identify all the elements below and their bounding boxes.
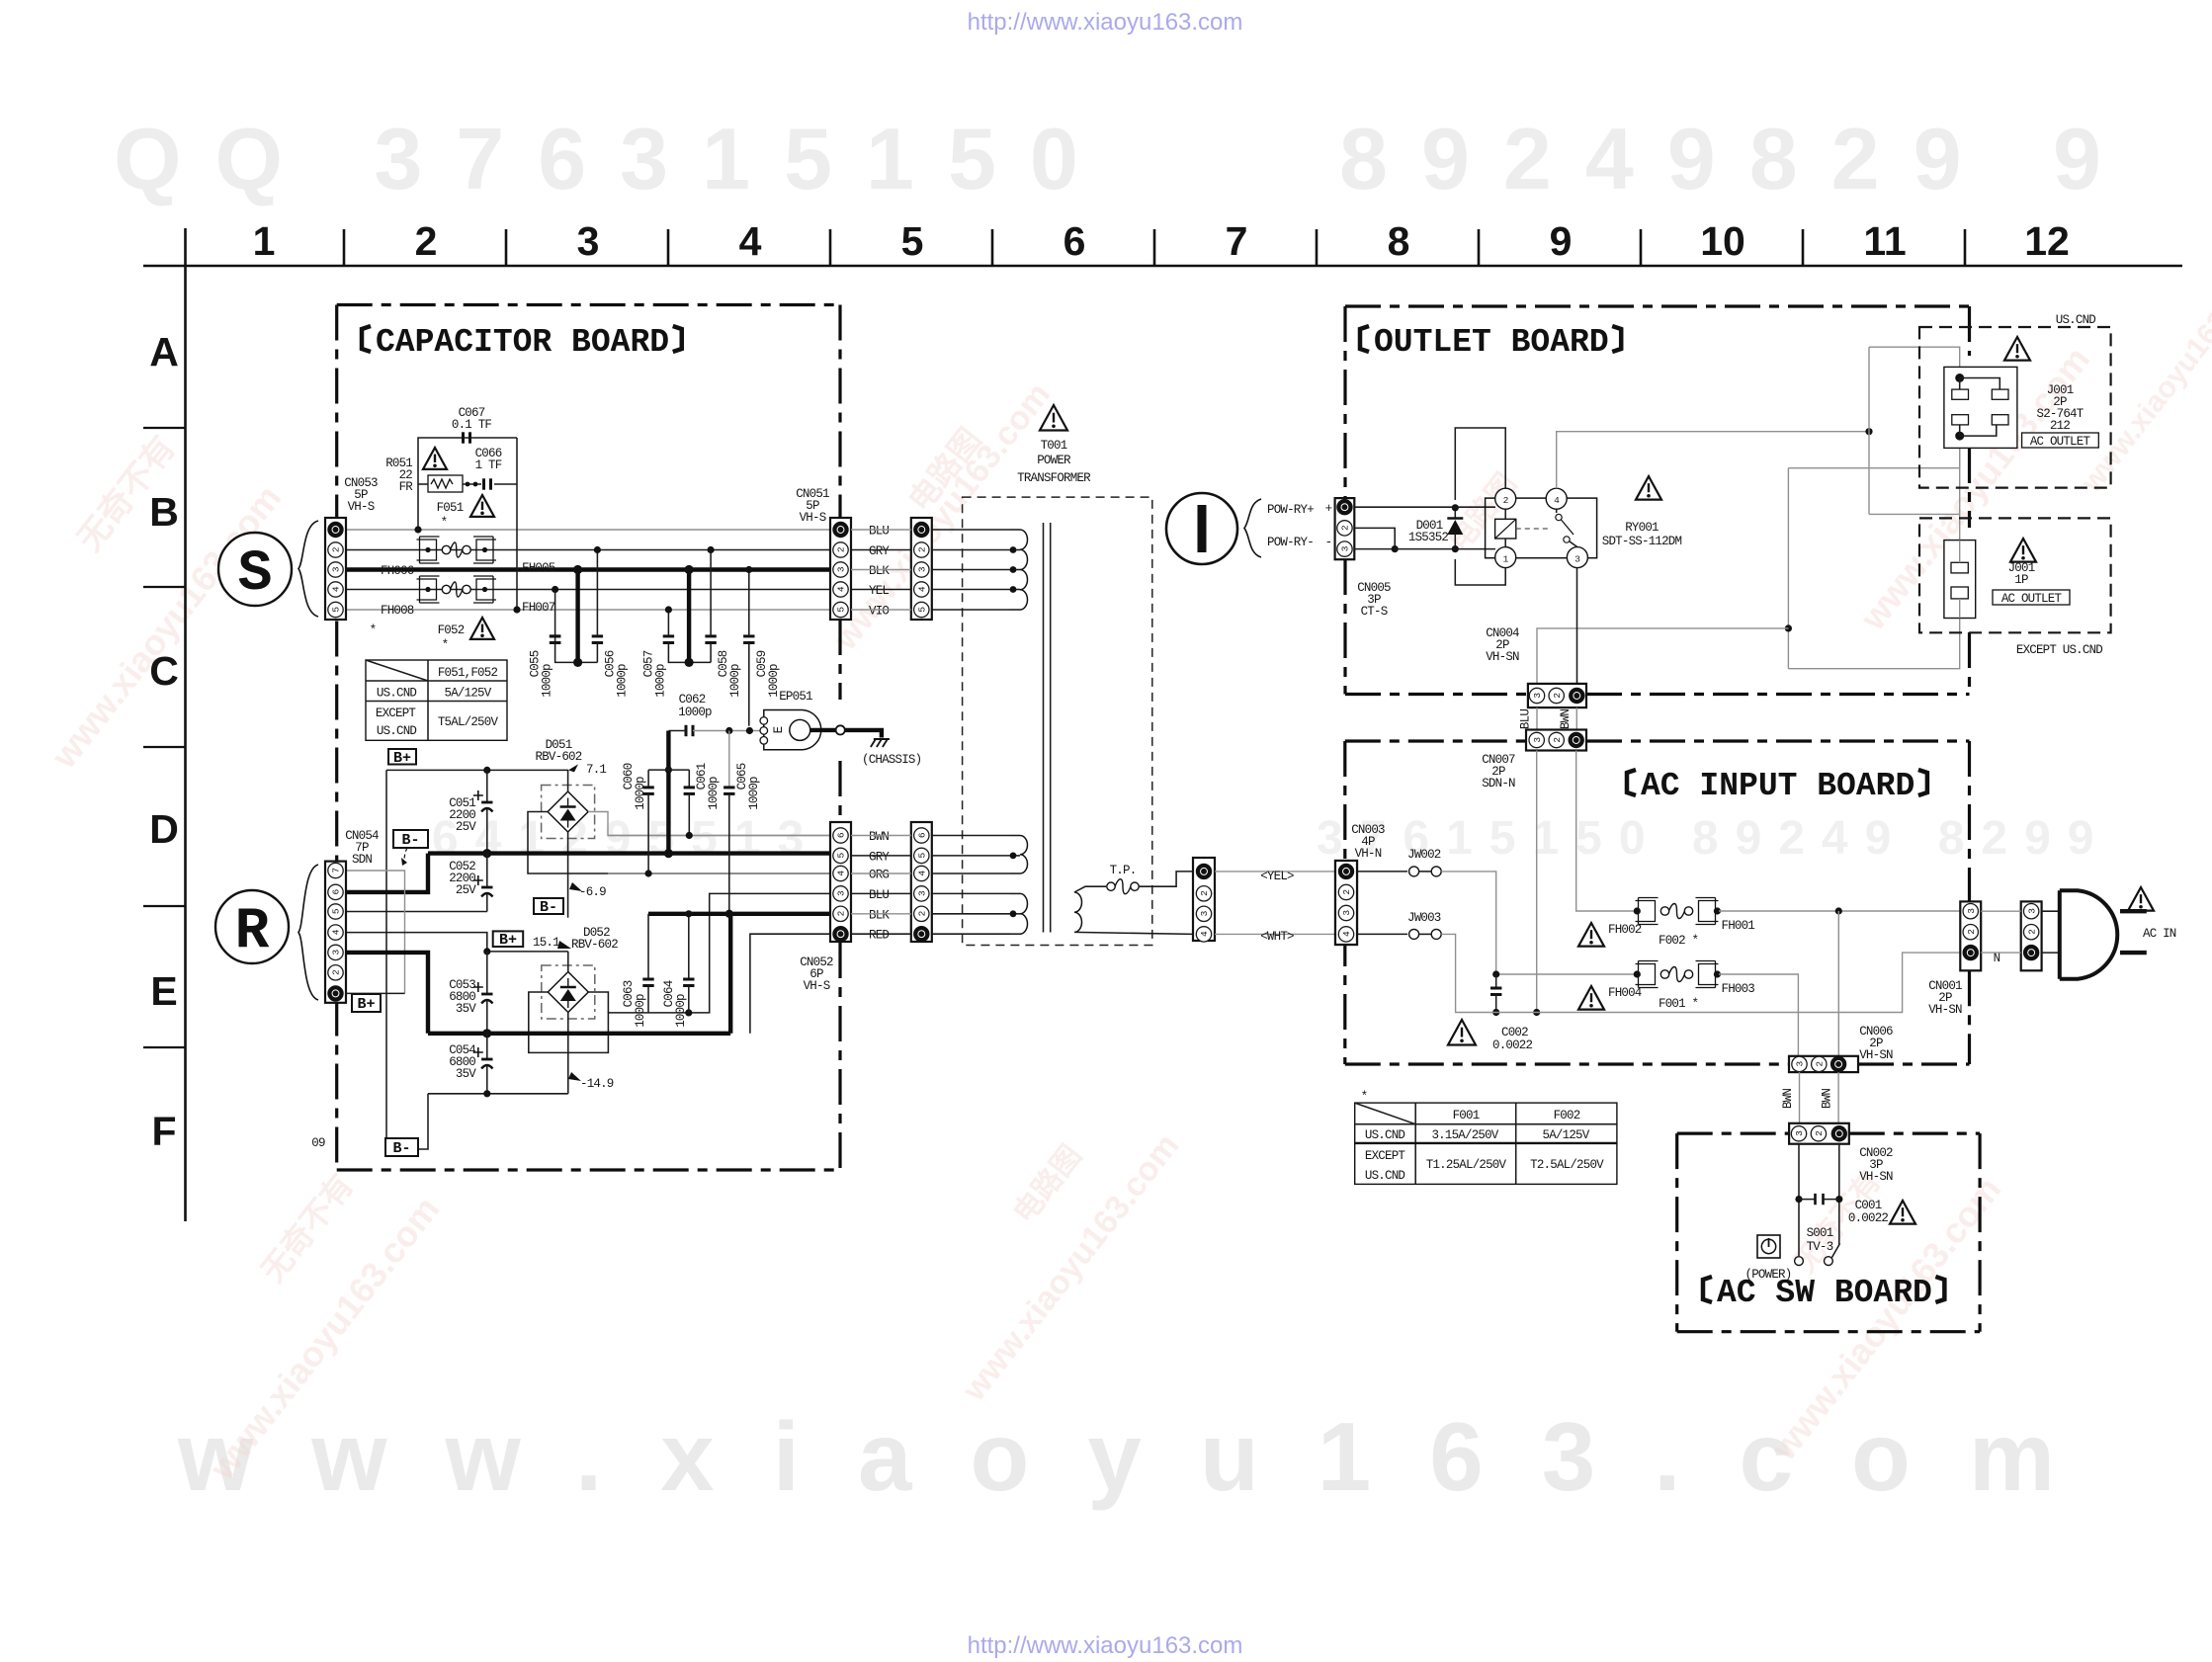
- svg-text:ORG: ORG: [869, 869, 889, 882]
- svg-text:OUTLET BOARD: OUTLET BOARD: [1374, 324, 1609, 361]
- svg-text:1000p: 1000p: [674, 994, 688, 1028]
- svg-text:3.15A/250V: 3.15A/250V: [1431, 1128, 1498, 1142]
- svg-text:1000p: 1000p: [615, 664, 629, 698]
- CN052 to secondary wires: [851, 835, 911, 837]
- ORG wire to CN052 pin4: [608, 873, 830, 874]
- svg-text:C002: C002: [1501, 1026, 1528, 1039]
- svg-text:09: 09: [311, 1136, 325, 1150]
- plug connector: [2021, 901, 2042, 970]
- node R: [215, 890, 289, 963]
- capacitor C066: [482, 478, 485, 489]
- CN051 to primary wires: [851, 529, 911, 531]
- svg-text:3: 3: [1795, 1061, 1806, 1067]
- capacitor C053: [486, 952, 488, 994]
- svg-text:3: 3: [577, 218, 600, 264]
- svg-text:FH002: FH002: [1608, 923, 1642, 937]
- svg-text:R: R: [235, 900, 270, 964]
- svg-text:US.CND: US.CND: [377, 687, 417, 701]
- svg-text:N: N: [1994, 952, 2000, 965]
- B-/GRY thick rail: [428, 851, 830, 855]
- svg-text:AC OUTLET: AC OUTLET: [2030, 435, 2091, 449]
- svg-text:3: 3: [917, 890, 928, 896]
- svg-text:2: 2: [2026, 929, 2037, 935]
- resistor R051: [428, 475, 463, 492]
- svg-text:6: 6: [836, 832, 847, 838]
- snubber loop wires: [418, 438, 517, 484]
- RED wire CN052 pin1: [750, 934, 830, 1034]
- svg-text:(CHASSIS): (CHASSIS): [862, 753, 921, 767]
- svg-text:2: 2: [1503, 495, 1509, 506]
- svg-text:1000p: 1000p: [707, 777, 721, 810]
- svg-text:E: E: [772, 726, 786, 733]
- svg-text:AC INPUT BOARD: AC INPUT BOARD: [1641, 768, 1914, 804]
- svg-text:http://www.xiaoyu163.com: http://www.xiaoyu163.com: [968, 1632, 1243, 1659]
- svg-text:3: 3: [1341, 910, 1352, 916]
- svg-text:*: *: [442, 638, 449, 652]
- svg-text:VH-S: VH-S: [804, 979, 830, 993]
- svg-text:BWN: BWN: [1559, 709, 1573, 729]
- svg-text:YEL: YEL: [869, 584, 889, 598]
- warning triangle near R051: [423, 448, 447, 469]
- capacitor C054: [486, 1034, 488, 1059]
- CN007 pin1 vertical to F002 row: [1576, 751, 1635, 912]
- svg-text:15.1: 15.1: [533, 936, 559, 950]
- svg-text:VH-SN: VH-SN: [1859, 1048, 1893, 1062]
- svg-text:S001: S001: [1807, 1226, 1833, 1240]
- svg-text:VH-SN: VH-SN: [1859, 1170, 1893, 1184]
- svg-text:SDN: SDN: [352, 853, 372, 867]
- svg-text:EP051: EP051: [779, 690, 812, 704]
- relay RY001: [1486, 498, 1597, 558]
- svg-text:SDT-SS-112DM: SDT-SS-112DM: [1602, 535, 1682, 548]
- tertiary winding (T.P.): [1074, 892, 1082, 932]
- svg-text:BLK: BLK: [869, 908, 890, 922]
- svg-text:TRANSFORMER: TRANSFORMER: [1017, 471, 1091, 485]
- svg-text:3: 3: [331, 566, 342, 572]
- svg-text:BLU: BLU: [869, 525, 889, 539]
- svg-text:4: 4: [331, 586, 342, 592]
- feed vertical: [1868, 347, 1870, 514]
- net label B- (left): [393, 830, 428, 848]
- svg-text:6: 6: [1063, 218, 1086, 264]
- svg-text:4: 4: [917, 586, 928, 592]
- svg-text:0.0022: 0.0022: [1848, 1211, 1889, 1225]
- svg-text:JW003: JW003: [1407, 911, 1441, 925]
- F001 fuse row: [1496, 973, 1635, 975]
- svg-text:8: 8: [1388, 218, 1410, 264]
- svg-text:B+: B+: [499, 932, 517, 949]
- svg-text:2: 2: [1814, 1130, 1825, 1136]
- capacitor C059: [748, 570, 750, 636]
- capacitor C052: [486, 854, 488, 887]
- svg-text:FH005: FH005: [522, 561, 555, 575]
- grid ruler left line: [184, 228, 187, 1221]
- svg-text:35V: 35V: [456, 1002, 476, 1016]
- svg-text:QQ 376315150: QQ 376315150: [114, 110, 1112, 208]
- node I circle: [1166, 493, 1237, 564]
- svg-text:POW-RY+: POW-RY+: [1267, 503, 1314, 517]
- svg-text:BWN: BWN: [1821, 1089, 1834, 1109]
- svg-text:C001: C001: [1855, 1199, 1882, 1212]
- svg-text:-6.9: -6.9: [579, 885, 606, 899]
- svg-text:FH003: FH003: [1722, 982, 1755, 996]
- D051 bottom to -6.9: [567, 832, 569, 918]
- outlet board outline: [1345, 304, 1970, 307]
- BWN wire to CN052 pin6: [608, 835, 830, 837]
- transformer dashed box: [963, 497, 1152, 945]
- svg-text:VH-SN: VH-SN: [1928, 1003, 1962, 1017]
- svg-text:4: 4: [1199, 931, 1210, 937]
- svg-text:+: +: [1325, 502, 1332, 516]
- svg-text:BLK: BLK: [869, 564, 890, 578]
- column ticks: [343, 229, 346, 266]
- svg-text:7: 7: [1226, 218, 1248, 264]
- svg-text:2: 2: [331, 969, 342, 975]
- svg-text:E: E: [150, 968, 177, 1014]
- svg-text:GRY: GRY: [869, 544, 890, 558]
- svg-text:212: 212: [2050, 419, 2070, 433]
- CN054 pin6 thick link: [345, 854, 428, 892]
- wire GRY CN053-CN051: [346, 549, 830, 551]
- thick link up to CN052 pin2: [728, 914, 732, 1034]
- svg-text:4: 4: [917, 871, 928, 876]
- svg-text:0.0022: 0.0022: [1492, 1039, 1533, 1052]
- svg-text:3: 3: [2026, 908, 2037, 914]
- svg-text:C: C: [149, 648, 179, 694]
- bus thick link to BLK at x=584.6: [575, 570, 579, 663]
- CN006-CN002 links: [1799, 1072, 1801, 1123]
- svg-text:FH004: FH004: [1608, 986, 1642, 1000]
- relay switch: [1556, 509, 1558, 513]
- fuse table F051/F052: [366, 660, 507, 740]
- svg-text:4: 4: [1341, 931, 1352, 937]
- connector CN051: [830, 518, 851, 620]
- capacitor C061: [668, 769, 689, 771]
- svg-text:T2.5AL/250V: T2.5AL/250V: [1530, 1158, 1604, 1172]
- C055 bottom to bus: [555, 643, 598, 663]
- BLU wire to CN052 pin3: [608, 893, 830, 1013]
- svg-text:F002: F002: [1554, 1109, 1580, 1122]
- svg-text:2: 2: [1552, 737, 1563, 743]
- svg-text:5: 5: [917, 607, 928, 613]
- connector CN054: [325, 862, 346, 1003]
- CN054 pin5 wire: [345, 911, 487, 913]
- B- rail -14.9: [428, 1093, 568, 1095]
- connector CN052: [830, 822, 851, 942]
- svg-text:5A/125V: 5A/125V: [1543, 1128, 1590, 1142]
- svg-text:7: 7: [331, 868, 342, 873]
- net label B+ (15.1): [493, 931, 524, 947]
- svg-text:VH-S: VH-S: [800, 511, 826, 525]
- capacitor C055: [554, 590, 556, 636]
- relay pin1 bottom loop: [1455, 559, 1505, 585]
- CN054 pin7 wire: [345, 871, 405, 993]
- capacitor C062: [685, 725, 688, 736]
- svg-text:US.CND: US.CND: [1365, 1128, 1405, 1142]
- wire VIO CN053-CN051: [346, 609, 830, 611]
- svg-text:FH007: FH007: [522, 601, 555, 615]
- svg-text:25V: 25V: [456, 883, 476, 897]
- switch verticals: [1798, 1144, 1800, 1256]
- connector CN007: [1526, 730, 1586, 751]
- svg-text:CT-S: CT-S: [1361, 605, 1388, 619]
- svg-text:T5AL/250V: T5AL/250V: [438, 715, 499, 729]
- D052 bottom to -14.9: [567, 1013, 569, 1094]
- svg-text:VH-S: VH-S: [348, 500, 375, 514]
- connector CN005: [1335, 498, 1355, 559]
- svg-text:5: 5: [331, 607, 342, 613]
- svg-text:35V: 35V: [456, 1067, 476, 1081]
- thick vertical from C062 to GRY rail: [666, 731, 670, 854]
- D052 left corner detour: [529, 992, 609, 1052]
- power symbol: [1757, 1235, 1780, 1258]
- svg-text:3: 3: [331, 950, 342, 956]
- svg-text:3: 3: [836, 566, 847, 572]
- net label B- (mid-right): [534, 898, 563, 914]
- svg-text:C062: C062: [679, 693, 706, 706]
- brace at CN054: [298, 865, 318, 1000]
- svg-text:BWN: BWN: [1781, 1089, 1795, 1109]
- svg-text:F051: F051: [437, 501, 464, 515]
- CN007 pin3 vertical: [1536, 751, 1538, 1013]
- svg-text:F052: F052: [438, 623, 465, 637]
- tertiary bottom lead: [1074, 932, 1193, 934]
- svg-text:RY001: RY001: [1625, 521, 1659, 535]
- svg-text:1000p: 1000p: [653, 664, 667, 698]
- svg-text:SDN-N: SDN-N: [1482, 777, 1515, 790]
- wire BLK CN053-CN051 (thick): [346, 567, 830, 571]
- svg-text:1000p: 1000p: [634, 994, 647, 1028]
- svg-text:6: 6: [917, 832, 928, 838]
- CN054 pin1 wire + B+ box: [345, 992, 405, 994]
- bridge rectifier D051: [542, 786, 595, 839]
- relay pin3 down to CN004 pin1: [1576, 568, 1578, 689]
- svg-text:B+: B+: [357, 996, 375, 1013]
- relay coil: [1495, 519, 1516, 539]
- svg-text:12: 12: [2024, 218, 2070, 264]
- capacitor C056 top: [596, 550, 598, 636]
- svg-text:4: 4: [836, 586, 847, 592]
- svg-text:FH008: FH008: [381, 604, 414, 618]
- bridge rectifier D052: [542, 965, 595, 1019]
- svg-text:T.P.: T.P.: [1110, 864, 1137, 877]
- svg-text:3: 3: [1794, 1130, 1805, 1136]
- svg-text:BWN: BWN: [869, 830, 889, 844]
- svg-text:EXCEPT: EXCEPT: [376, 706, 417, 720]
- wire BLU CN053-CN051: [346, 529, 830, 531]
- ground (chassis): [874, 738, 890, 740]
- svg-text:T001: T001: [1041, 439, 1067, 453]
- B+ rail 15.1V: [487, 951, 568, 953]
- svg-text:5: 5: [331, 908, 342, 914]
- F002 row vertical to CN006 pin1: [1837, 911, 1839, 1057]
- return vertical: [1787, 468, 1789, 669]
- svg-text:AC OUTLET: AC OUTLET: [2001, 592, 2063, 606]
- return to J001 2P bottom: [1788, 467, 1959, 469]
- svg-text:5: 5: [917, 853, 928, 859]
- CN004 pin3 wire up: [1537, 628, 1788, 689]
- relay warning triangle: [1636, 476, 1661, 500]
- fuse holders FH006/FH005: [417, 540, 437, 560]
- svg-text:2: 2: [917, 910, 928, 916]
- YEL wire: [1215, 871, 1335, 873]
- svg-text:2: 2: [415, 218, 438, 264]
- svg-text:2: 2: [1552, 693, 1563, 699]
- svg-text:3: 3: [917, 566, 928, 572]
- svg-text:2: 2: [1199, 890, 1210, 896]
- svg-text:<YEL>: <YEL>: [1260, 870, 1294, 883]
- secondary connector (6P): [911, 822, 932, 942]
- return bottom to J001 1P: [1788, 619, 1959, 669]
- svg-text:D: D: [149, 806, 179, 852]
- svg-text:2: 2: [1815, 1061, 1826, 1067]
- svg-text:POWER: POWER: [1037, 454, 1071, 467]
- capacitor C065: [728, 731, 730, 788]
- svg-text:US.CND: US.CND: [2056, 313, 2096, 327]
- relay pin2 loop to coil supply: [1455, 428, 1505, 500]
- svg-text:VH-SN: VH-SN: [1486, 650, 1519, 664]
- svg-text:S: S: [238, 542, 273, 607]
- svg-text:T1.25AL/250V: T1.25AL/250V: [1426, 1158, 1507, 1172]
- secondary winding upper: [932, 835, 1010, 837]
- svg-text:2: 2: [331, 546, 342, 552]
- svg-text:1000p: 1000p: [728, 664, 742, 698]
- capacitor C058 top: [710, 550, 712, 636]
- svg-text:CAPACITOR BOARD: CAPACITOR BOARD: [376, 324, 669, 361]
- capacitor board outline: [337, 303, 839, 306]
- capacitor C051: [486, 770, 488, 802]
- EP051 to chassis node: [810, 728, 836, 732]
- svg-text:B+: B+: [393, 750, 411, 767]
- F002 fuse row: [1636, 901, 1656, 922]
- svg-text:3: 3: [1574, 554, 1580, 565]
- D051 right corner path to BWN wire: [588, 812, 830, 836]
- feed to J001 1P: [1869, 513, 1960, 515]
- svg-text:B-: B-: [392, 1140, 410, 1157]
- svg-text:RBV-602: RBV-602: [571, 938, 618, 952]
- svg-text:*: *: [441, 516, 448, 530]
- T.P. fuse: [1074, 886, 1106, 892]
- AC outlet J001 2P: [1944, 367, 2017, 448]
- grid ruler top line: [143, 265, 2182, 268]
- connector CN003 redraw over border: [1335, 861, 1357, 945]
- D052 right corner to BLU net: [607, 1012, 609, 1013]
- B+ rail 7.1V: [386, 769, 568, 771]
- svg-text:US.CND: US.CND: [377, 724, 417, 738]
- svg-text:0.1 TF: 0.1 TF: [452, 418, 492, 432]
- svg-text:2: 2: [1341, 889, 1352, 895]
- connector CN001: [1960, 901, 1981, 970]
- CN054 pin4 wire to B+ 15.1: [345, 933, 487, 952]
- outlet board title: [1360, 326, 1369, 352]
- svg-text:2: 2: [836, 546, 847, 552]
- svg-text:FH006: FH006: [381, 564, 414, 578]
- BLK thick rail bottom: [428, 1032, 730, 1036]
- svg-text:EXCEPT: EXCEPT: [1365, 1149, 1406, 1163]
- primary connector: [911, 518, 932, 620]
- svg-text:5: 5: [901, 218, 924, 264]
- svg-text:1: 1: [1503, 554, 1509, 565]
- CN005 pin1 wire: [1354, 506, 1495, 508]
- EXCEPT US.CND sub-box: [1919, 518, 2111, 632]
- svg-text:5: 5: [836, 853, 847, 859]
- capacitor board title: [362, 326, 371, 352]
- long vertical x=391: [385, 770, 387, 1149]
- svg-text:3: 3: [1966, 908, 1977, 914]
- svg-text:-14.9: -14.9: [580, 1077, 614, 1091]
- svg-text:1000p: 1000p: [541, 664, 554, 698]
- connector CN004: [1528, 684, 1586, 707]
- net label B+ (top): [388, 749, 416, 765]
- svg-text:US.CND: US.CND: [1365, 1169, 1405, 1183]
- svg-text:2: 2: [917, 546, 928, 552]
- J001 2P warning: [2004, 337, 2030, 361]
- svg-text:11: 11: [1863, 218, 1906, 264]
- svg-text:25V: 25V: [456, 820, 476, 834]
- transformer warning triangle: [1040, 405, 1067, 430]
- connector CN002: [1789, 1123, 1849, 1144]
- J001 1P warning: [2010, 539, 2036, 562]
- D051 left corner path to ORG wire: [528, 812, 830, 874]
- capacitor C063: [647, 914, 649, 979]
- svg-text:4: 4: [331, 929, 342, 935]
- row ticks: [143, 427, 186, 429]
- svg-text:1: 1: [253, 218, 276, 264]
- fuse holders FH008/FH007: [417, 579, 437, 600]
- ac input board outline: [1345, 739, 1970, 742]
- svg-text:1000p: 1000p: [634, 777, 647, 810]
- svg-text:4: 4: [739, 218, 762, 264]
- svg-text:9: 9: [1550, 218, 1573, 264]
- svg-text:B: B: [149, 489, 179, 535]
- svg-text:F001: F001: [1453, 1109, 1480, 1122]
- svg-text:2: 2: [836, 910, 847, 916]
- svg-text:7.1: 7.1: [586, 763, 606, 777]
- svg-text:-: -: [1325, 536, 1332, 549]
- jumper JW002: [1357, 871, 1407, 873]
- capacitor C064: [688, 914, 690, 979]
- svg-text:BLU: BLU: [1519, 709, 1533, 729]
- svg-text:5A/125V: 5A/125V: [445, 687, 492, 701]
- AC outlet J001 1P: [1944, 540, 1976, 619]
- relay pin4 feed wire: [1557, 432, 1869, 489]
- ac input board title: [1627, 770, 1636, 795]
- bus thick link to BLK at x=697.1: [687, 570, 691, 663]
- WHT wire: [1215, 933, 1335, 935]
- JW002 wire to F001 row: [1441, 872, 1496, 974]
- brace POW-RY: [1244, 499, 1261, 557]
- svg-text:3: 3: [1340, 545, 1351, 551]
- connector CN003: [1335, 861, 1357, 945]
- svg-text:<WHT>: <WHT>: [1260, 930, 1294, 944]
- svg-text:2: 2: [1966, 929, 1977, 935]
- svg-text:RED: RED: [869, 929, 889, 943]
- CN005 pin2+pin3 tie: [1354, 528, 1395, 548]
- CN004-CN007 links: [1536, 707, 1538, 729]
- svg-text:JW002: JW002: [1407, 848, 1441, 862]
- svg-text:4: 4: [836, 871, 847, 876]
- ac sw board title: [1703, 1277, 1712, 1302]
- svg-text:F051,F052: F051,F052: [438, 666, 498, 680]
- wire YEL CN053-CN051: [346, 589, 830, 591]
- svg-text:89249829 9: 89249829 9: [1339, 110, 2135, 208]
- svg-text:B-: B-: [401, 832, 419, 849]
- svg-text:10: 10: [1700, 218, 1745, 264]
- secondary winding lower: [932, 892, 1010, 894]
- connector CN053: [325, 518, 346, 620]
- svg-text:1S5352: 1S5352: [1408, 531, 1449, 544]
- svg-text:FH001: FH001: [1722, 919, 1755, 933]
